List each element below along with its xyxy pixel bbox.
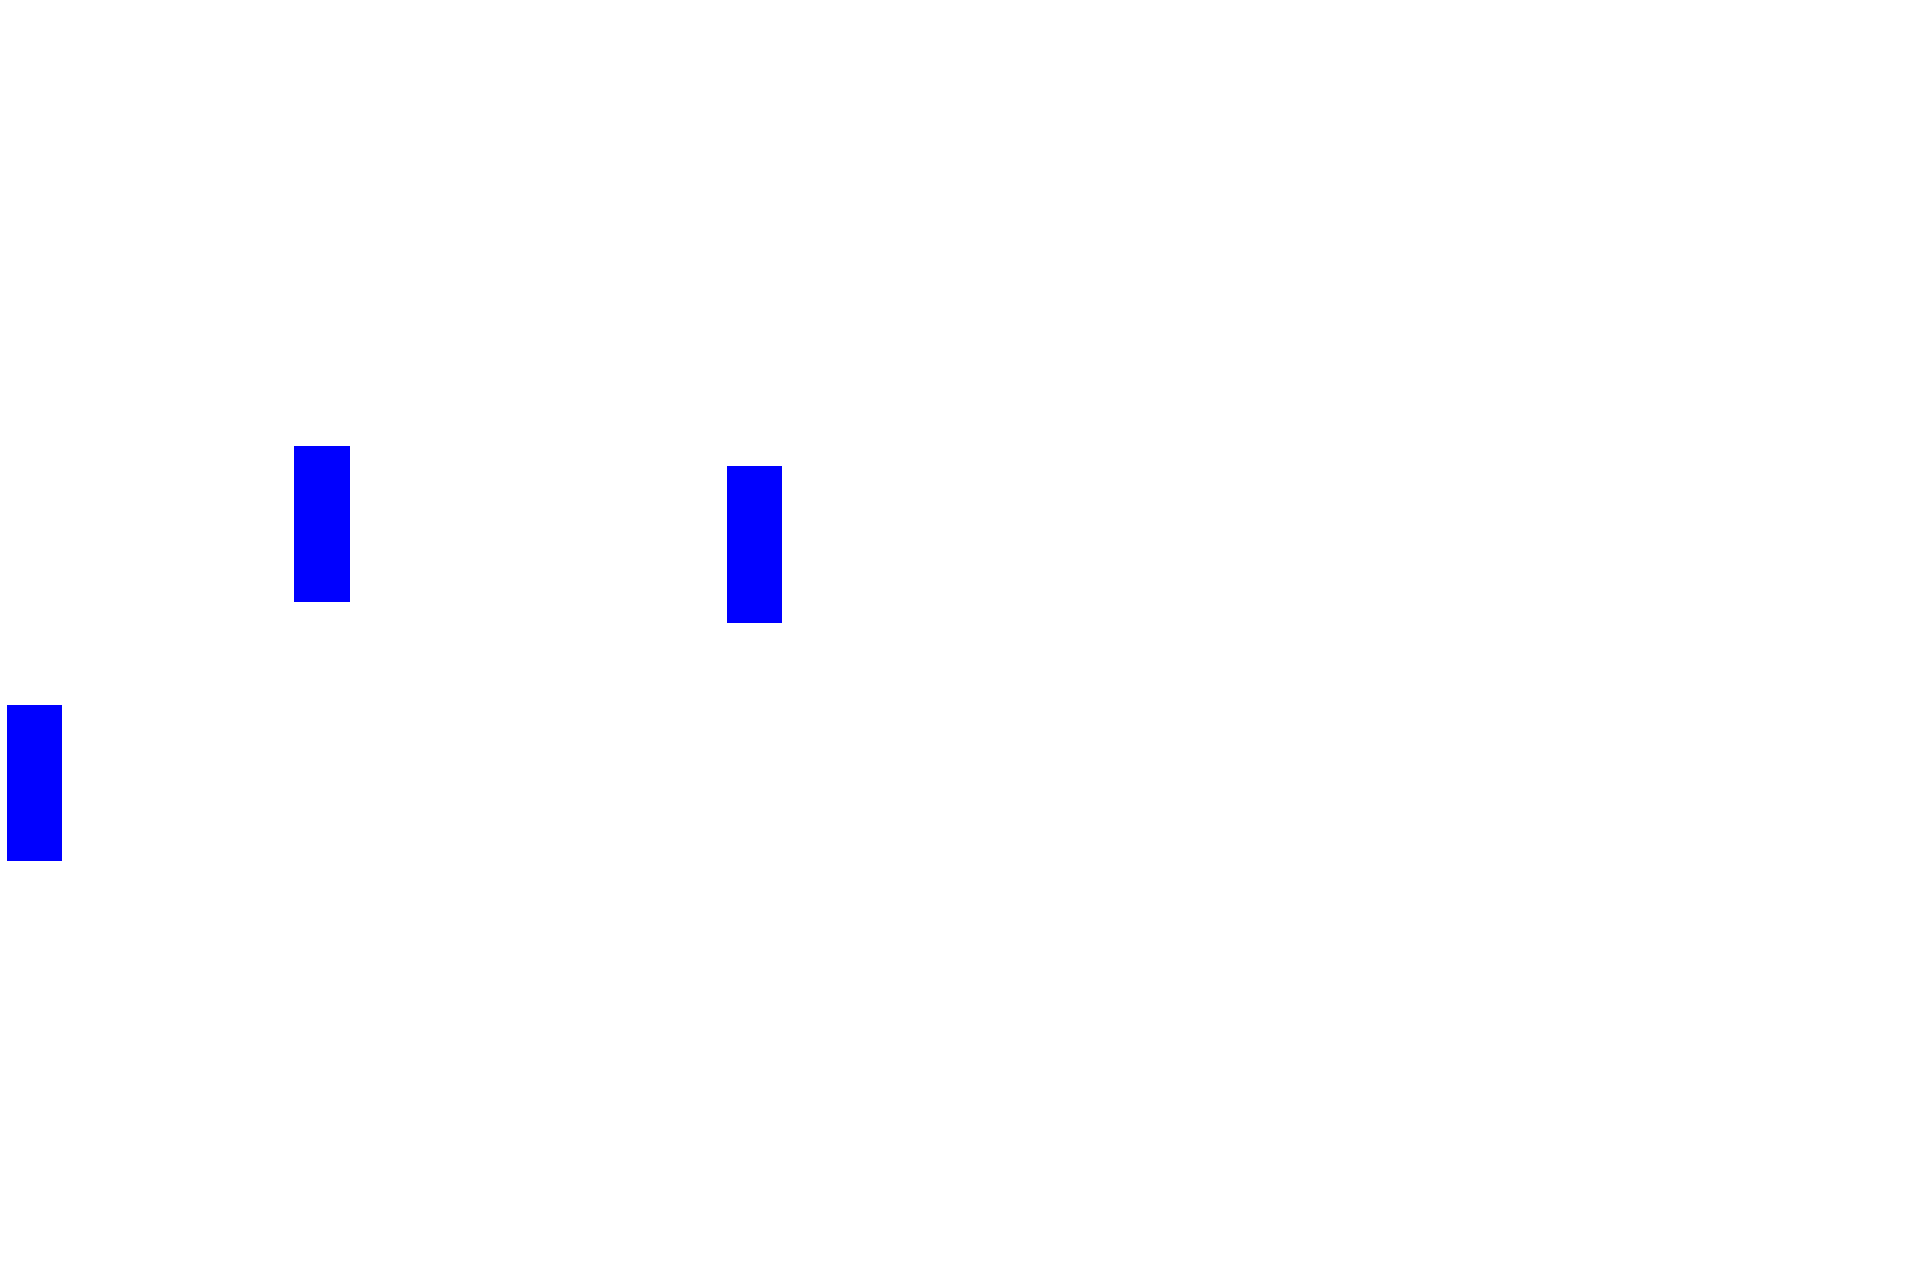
blue rectangle 1 (upper middle-left) [294, 446, 350, 602]
blue rectangle 2 (upper center) [727, 466, 782, 623]
blue rectangle 3 (lower left edge) [7, 705, 62, 861]
